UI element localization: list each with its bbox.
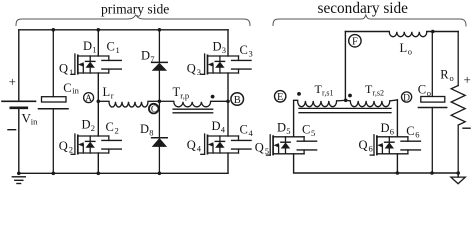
diode D2 <box>82 117 95 153</box>
resistor Ro <box>440 32 465 175</box>
node D <box>402 92 412 104</box>
battery Vin <box>2 101 36 108</box>
svg-text:7: 7 <box>150 54 154 64</box>
label + (output) <box>464 72 471 87</box>
svg-text:2: 2 <box>91 123 95 133</box>
svg-text:R: R <box>440 68 449 82</box>
wire D junction down to Q6 <box>396 100 398 137</box>
svg-text:Q: Q <box>59 61 68 75</box>
svg-text:4: 4 <box>249 128 254 138</box>
diode D8 <box>140 101 167 175</box>
label Vin <box>22 110 39 126</box>
label - (battery) <box>8 129 16 131</box>
transistor Q5 <box>255 135 304 156</box>
transistor Q6 <box>359 135 408 155</box>
wire Q2 source to bottom bus <box>97 153 101 175</box>
svg-text:8: 8 <box>149 128 153 138</box>
svg-text:C: C <box>406 124 414 138</box>
svg-text:1: 1 <box>116 45 120 55</box>
svg-text:Q: Q <box>59 139 68 153</box>
wire left rail upper <box>18 30 20 102</box>
svg-text:r: r <box>111 91 114 101</box>
secondary side brace <box>273 15 466 26</box>
svg-text:2: 2 <box>69 144 73 154</box>
svg-text:primary side: primary side <box>101 2 169 17</box>
wire Q6 source to bottom bus <box>396 154 400 175</box>
inductor Lo <box>389 32 427 57</box>
svg-text:C: C <box>106 120 114 134</box>
svg-text:C: C <box>63 81 71 95</box>
wire top rail right of Lo <box>427 30 458 34</box>
svg-text:Q: Q <box>359 138 368 152</box>
svg-text:6: 6 <box>390 127 394 137</box>
wire Q3 source to node B <box>227 73 229 101</box>
svg-text:6: 6 <box>369 144 373 154</box>
capacitor C6 <box>401 124 420 154</box>
capacitor C5 <box>297 122 316 153</box>
wire Q4 source to bottom bus <box>227 153 229 173</box>
svg-text:3: 3 <box>249 49 253 59</box>
svg-text:+: + <box>9 74 16 89</box>
transformer secondary Trs1 <box>297 82 346 107</box>
svg-text:r,p: r,p <box>180 90 189 100</box>
wire left rail lower <box>18 108 20 174</box>
label secondary side <box>318 0 409 17</box>
diode D7 <box>141 28 167 101</box>
diode D3 <box>213 40 226 74</box>
svg-text:4: 4 <box>221 125 226 135</box>
transistor Q1 <box>59 54 109 77</box>
svg-text:D: D <box>212 119 221 133</box>
ground (output) <box>451 173 465 184</box>
ground <box>12 172 25 184</box>
wire Q3 drain from top bus <box>227 30 229 56</box>
svg-text:D: D <box>141 49 150 63</box>
svg-text:1: 1 <box>92 45 96 55</box>
svg-text:L: L <box>103 85 111 99</box>
svg-text:in: in <box>31 117 38 127</box>
svg-text:in: in <box>72 86 79 96</box>
svg-text:Q: Q <box>255 140 264 154</box>
capacitor C2 <box>102 120 121 153</box>
svg-text:A: A <box>85 94 92 104</box>
svg-text:5: 5 <box>265 146 269 156</box>
diode D5 <box>277 121 290 154</box>
wire Q1 drain from top bus <box>97 28 101 56</box>
capacitor C4 <box>232 123 254 154</box>
svg-text:D: D <box>83 39 92 53</box>
diode D6 <box>381 121 394 154</box>
svg-text:5: 5 <box>311 128 315 138</box>
svg-text:D: D <box>381 121 390 135</box>
svg-text:o: o <box>427 88 431 98</box>
svg-text:r,s1: r,s1 <box>322 88 333 97</box>
svg-text:C: C <box>151 105 157 115</box>
svg-text:6: 6 <box>415 130 419 140</box>
label primary side <box>101 2 169 17</box>
label + (battery) <box>9 74 16 89</box>
svg-text:T: T <box>173 85 181 99</box>
wire E corner down to Q5 <box>294 100 298 137</box>
svg-text:F: F <box>352 37 358 48</box>
svg-text:r,s2: r,s2 <box>373 88 384 97</box>
svg-text:+: + <box>464 72 471 87</box>
node B <box>226 93 243 106</box>
svg-text:C: C <box>240 43 248 57</box>
transistor Q2 <box>59 101 109 154</box>
transformer primary Trp <box>159 85 228 113</box>
node C <box>149 104 159 115</box>
svg-text:D: D <box>277 121 286 135</box>
svg-text:1: 1 <box>69 67 73 77</box>
svg-text:5: 5 <box>286 126 290 136</box>
svg-text:D: D <box>82 117 91 131</box>
node A <box>84 93 101 104</box>
svg-text:D: D <box>213 40 222 54</box>
svg-text:C: C <box>240 123 248 137</box>
svg-text:C: C <box>107 40 115 54</box>
svg-text:C: C <box>302 122 310 136</box>
svg-text:o: o <box>408 47 412 57</box>
wire primary top bus <box>19 29 228 31</box>
inductor Lr <box>98 85 159 107</box>
svg-text:Q: Q <box>187 61 196 75</box>
transistor Q3 <box>187 54 239 77</box>
capacitor C1 <box>102 40 121 74</box>
svg-text:secondary side: secondary side <box>318 0 409 17</box>
svg-text:Q: Q <box>187 138 196 152</box>
wire secondary top rail <box>345 31 389 33</box>
wire center tap to top rail <box>344 32 348 103</box>
svg-text:D: D <box>403 93 410 103</box>
svg-text:o: o <box>450 73 454 83</box>
wire primary bottom bus <box>19 172 228 174</box>
svg-text:B: B <box>234 95 241 106</box>
diode D1 <box>83 39 96 73</box>
transistor Q4 <box>187 101 239 154</box>
node C junction dot <box>158 100 162 104</box>
diode D4 <box>212 119 226 153</box>
transformer secondary Trs2 <box>346 82 398 107</box>
capacitor Co <box>418 32 447 175</box>
label - (output) <box>463 127 470 129</box>
primary side brace <box>16 15 250 26</box>
svg-text:3: 3 <box>197 67 201 77</box>
transformer secondary core <box>299 108 391 112</box>
svg-text:D: D <box>140 122 149 136</box>
svg-text:L: L <box>400 41 408 55</box>
svg-text:E: E <box>277 92 283 103</box>
node F <box>349 35 361 48</box>
svg-text:C: C <box>418 82 426 96</box>
node E <box>275 91 286 103</box>
svg-text:3: 3 <box>222 45 226 55</box>
capacitor C3 <box>232 43 253 73</box>
svg-text:4: 4 <box>197 143 202 153</box>
wire Q5 source to bottom bus <box>294 154 459 173</box>
svg-text:2: 2 <box>115 126 119 136</box>
wire Q1 source to node A <box>97 73 99 101</box>
capacitor Cin <box>39 28 80 175</box>
